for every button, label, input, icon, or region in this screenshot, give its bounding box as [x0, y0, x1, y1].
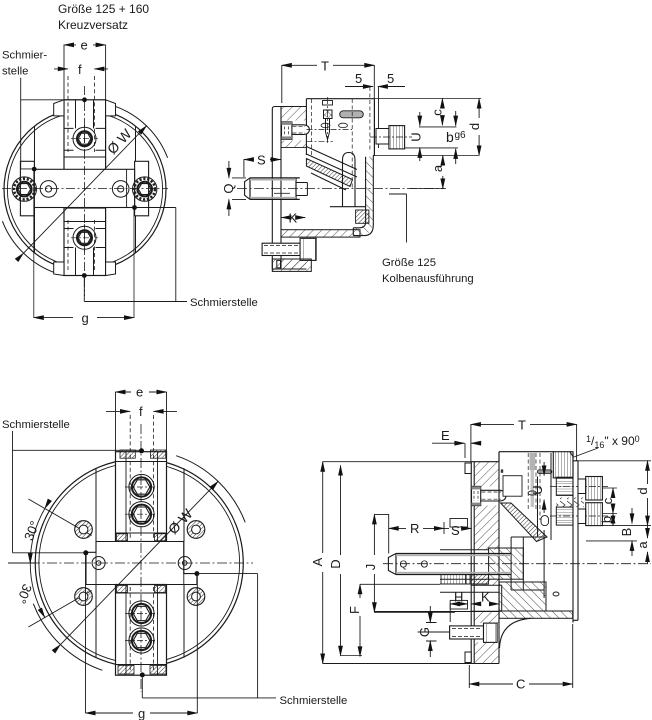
body slot pin — [340, 111, 364, 118]
svg-text:T: T — [321, 59, 329, 74]
dimension e — [64, 44, 106, 46]
dimension J — [374, 514, 455, 612]
bottom jaw corner hatch strips — [117, 586, 128, 593]
dimension T large — [471, 424, 577, 461]
lube dot band right — [132, 205, 137, 210]
svg-text:G: G — [417, 627, 432, 637]
guideway edges bottom large — [96, 585, 184, 658]
svg-text:K: K — [481, 590, 490, 605]
top jaw horizontals large — [116, 462, 167, 534]
dimension F — [360, 584, 440, 656]
lube fitting lower-right — [187, 588, 205, 606]
top jaw inner verticals — [76, 100, 94, 129]
chamfer circle large — [39, 463, 240, 664]
lube dot band left large — [83, 550, 88, 555]
rod spring — [441, 575, 466, 585]
top jaw corner hatch strips — [120, 450, 135, 458]
rear bolt upper inner — [556, 477, 573, 495]
centerline section — [237, 188, 446, 190]
svg-text:g: g — [82, 311, 89, 326]
flange mount screw shaft — [292, 125, 310, 135]
dimension c — [441, 99, 443, 126]
body detail ovals — [321, 123, 330, 127]
svg-text:K: K — [289, 211, 298, 226]
vertical centerline — [84, 86, 86, 296]
swing arc W bottom-left — [2, 221, 56, 273]
g extension lines — [34, 171, 134, 318]
lube dot top large — [139, 448, 144, 453]
svg-text:F: F — [347, 606, 362, 614]
bottom jaw screw hex socket — [77, 230, 92, 245]
body cup outer wall — [353, 156, 373, 236]
svg-text:Kreuzversatz: Kreuzversatz — [58, 18, 128, 32]
svg-text:U: U — [530, 485, 545, 494]
svg-text:Kolbenausführung: Kolbenausführung — [382, 273, 474, 285]
leader schmierstelle left — [21, 78, 85, 169]
bottom jaw screws crosshair — [125, 614, 158, 641]
dimension S large — [444, 527, 471, 529]
rear bolt lower inner — [556, 507, 573, 525]
swing arc W bottom-left large — [33, 604, 102, 671]
flange ledge line — [281, 146, 306, 148]
lube dot band left — [32, 167, 37, 172]
rod sleeve lines — [440, 550, 499, 593]
wedge large — [501, 503, 547, 542]
piston rod — [250, 178, 300, 200]
e extension lines — [64, 45, 106, 100]
svg-text:d: d — [635, 487, 650, 494]
bottom jaw inner verticals — [76, 248, 94, 276]
body top screw head — [324, 110, 333, 119]
svg-text:Größe 125: Größe 125 — [382, 257, 436, 269]
svg-text:Schmierstelle: Schmierstelle — [280, 695, 348, 707]
outer circle chuck body — [4, 109, 166, 271]
pivot circle right large — [178, 557, 191, 570]
cross slide band large stepped — [86, 542, 197, 585]
top jaw screw hex socket — [77, 131, 92, 146]
svg-text:E: E — [441, 428, 450, 443]
dimension g — [34, 317, 134, 319]
svg-text:Schmierstelle: Schmierstelle — [2, 419, 70, 431]
bottom jaw screw crosshair — [71, 224, 98, 252]
svg-text:5: 5 — [355, 71, 362, 86]
svg-text:Q: Q — [400, 560, 408, 571]
top jaw step lines — [64, 128, 106, 157]
piston block lines — [511, 530, 544, 598]
lube dot bottom large — [140, 672, 145, 677]
right reference lines — [373, 99, 481, 189]
lower screw shaft — [262, 243, 300, 255]
svg-text:1/16" x 900: 1/16" x 900 — [586, 434, 640, 450]
lube fitting lower-left — [75, 588, 93, 606]
dimension d — [478, 99, 480, 156]
dimension Q — [229, 161, 246, 216]
dimension H — [450, 604, 467, 622]
top jaw screws crosshair — [125, 487, 158, 514]
dimension K large — [471, 603, 499, 605]
cup inner block — [356, 210, 369, 223]
leader schmierstelle left large — [13, 431, 142, 553]
dimension C — [469, 624, 572, 688]
outer circle chuck body large — [35, 459, 243, 667]
dimension G — [418, 606, 449, 657]
bush pilot — [376, 129, 389, 145]
arc dim 30deg upper — [30, 509, 45, 564]
svg-text:a: a — [430, 164, 445, 172]
leader schmierstelle bottom large — [142, 574, 276, 698]
dimension g large — [86, 555, 198, 713]
foot fillet — [500, 618, 532, 648]
radial line 30deg up — [28, 499, 91, 536]
sleeve hatch small — [470, 575, 489, 585]
body top screw centerline — [327, 97, 329, 145]
svg-text:5: 5 — [387, 71, 394, 86]
flange plate large outline — [471, 462, 499, 664]
dimension E — [432, 443, 478, 458]
flange hatch mid1 — [281, 141, 306, 148]
flange hatch 3b — [474, 611, 499, 623]
dimension 5 5 — [345, 87, 405, 149]
dimension a — [442, 156, 444, 189]
svg-text:S: S — [257, 153, 266, 168]
body internal dash details — [307, 130, 353, 142]
dashed jaw width lines large — [130, 415, 153, 670]
svg-text:B: B — [619, 528, 634, 537]
body inner pin gray — [530, 453, 536, 470]
rod hub band top — [450, 519, 468, 528]
svg-text:A: A — [310, 557, 325, 566]
rear bolt lower shank — [578, 509, 586, 524]
svg-text:Schmier-: Schmier- — [2, 50, 47, 62]
body below rod hatch — [499, 582, 546, 611]
cross slide band outline — [34, 169, 134, 207]
dashed jaw width lines top — [68, 76, 94, 152]
thread chevrons — [556, 498, 584, 508]
side lube fitting right — [133, 177, 157, 201]
svg-text:b: b — [599, 516, 614, 523]
svg-text:Schmierstelle: Schmierstelle — [190, 297, 258, 309]
dimension e large — [116, 392, 167, 452]
arc dim 30deg lower — [30, 563, 45, 618]
svg-text:stelle: stelle — [2, 66, 28, 78]
rod hub band bottom — [450, 600, 467, 609]
horizontal centerline — [2, 188, 168, 190]
lube fitting upper-left — [75, 521, 93, 539]
right reference lines large — [578, 461, 651, 541]
svg-text:e: e — [136, 385, 143, 400]
flange mount screw head — [282, 122, 292, 139]
svg-text:H: H — [454, 590, 463, 605]
chamfer circle — [7, 112, 162, 267]
dimension d large — [647, 461, 649, 526]
leader 1/16 — [573, 448, 599, 458]
side lube fitting left — [12, 177, 36, 201]
side boss left — [20, 161, 34, 216]
body inner wall vertical — [538, 453, 552, 540]
svg-text:D: D — [328, 559, 343, 568]
svg-text:T: T — [518, 418, 526, 433]
lower screw shaft dashes — [452, 629, 482, 637]
rear slab — [573, 452, 578, 623]
rod gray edges large — [396, 555, 511, 572]
svg-text:S: S — [451, 523, 460, 538]
band inner verticals large — [96, 542, 184, 585]
dimension c large — [612, 488, 614, 514]
pivot circle left large — [92, 557, 105, 570]
dimension R — [389, 514, 444, 553]
bottom jaw guide ear right — [106, 262, 116, 276]
top jaw screw upper — [129, 474, 154, 499]
body outline — [306, 99, 374, 156]
bottom jaw outline large — [116, 585, 167, 676]
lube dot band right large — [194, 571, 199, 576]
flange hatch upper — [281, 107, 306, 121]
dimension S — [244, 160, 281, 178]
dimension A — [323, 462, 472, 664]
top jaw screw circle — [73, 127, 96, 150]
dimension B — [631, 508, 633, 556]
upper body pocket — [503, 476, 522, 497]
flange hatch 3 — [474, 579, 499, 585]
D F bottom reference — [341, 655, 363, 657]
bottom jaw screw upper — [129, 601, 154, 626]
top jaw inner verticals large — [126, 452, 158, 542]
svg-text:a: a — [635, 541, 650, 549]
rear bolt upper shank — [578, 479, 586, 494]
svg-text:f: f — [139, 404, 143, 419]
pivot circle left — [40, 181, 57, 198]
port lobe — [541, 516, 549, 526]
bottom jaw screw lower — [129, 628, 154, 653]
threaded bush — [389, 126, 405, 149]
dimension f large — [106, 410, 177, 412]
lower screw tab — [277, 260, 281, 267]
dimension f — [54, 68, 108, 70]
body top screw fitting — [323, 101, 333, 106]
centerline section large — [383, 563, 651, 565]
top jaw outline large — [116, 452, 167, 542]
upper screw shaft — [481, 490, 506, 501]
leader schmierstelle bottom — [84, 208, 187, 302]
horizontal reference 0deg — [8, 562, 36, 564]
body dashed bores vertical — [528, 453, 540, 520]
pivot circle right — [112, 181, 129, 198]
wedge — [306, 147, 357, 178]
svg-text:g: g — [138, 706, 145, 720]
rod end cap — [245, 178, 250, 200]
dashed jaw width lines bottom — [68, 220, 94, 270]
guideway edge top-right — [135, 126, 137, 169]
lube dot bottom — [82, 273, 87, 278]
lube fitting upper-right — [187, 521, 205, 539]
body inner pin washer — [528, 491, 536, 495]
top jaw guide ear right — [106, 100, 116, 116]
swing arc W top-right large — [176, 456, 245, 523]
body top edge — [499, 452, 553, 462]
rod gray edges — [250, 180, 296, 198]
guideway edge top-left — [34, 126, 36, 169]
vertical centerline large — [140, 424, 142, 692]
flange hatch 2 — [474, 506, 499, 550]
horizontal centerline large — [30, 562, 253, 564]
rear bolt centerlines — [550, 487, 608, 517]
chamfer 1/16 — [570, 452, 573, 457]
dimension b large — [612, 514, 614, 526]
bottom jaw guide ear left — [54, 262, 64, 276]
wedge lower line — [311, 173, 346, 190]
top jaw guide ear left — [54, 100, 64, 116]
adapter block on rod — [489, 548, 524, 579]
flange foot — [272, 259, 311, 271]
cylinder interior bottom — [374, 611, 499, 613]
body lower arm — [281, 230, 360, 237]
bottom jaw horizontals large — [116, 593, 167, 665]
top jaw screw crosshair — [71, 125, 98, 153]
bottom jaw inner verticals large — [126, 585, 158, 676]
piston rod large — [396, 554, 511, 575]
flange tab bottom — [465, 652, 471, 663]
dimension T — [282, 65, 375, 103]
upper screw head — [472, 486, 481, 505]
lower screw shaft large — [450, 626, 484, 639]
radial line 30deg down — [28, 591, 91, 628]
rod tip in body — [296, 183, 307, 196]
bush centerline — [370, 136, 412, 138]
bottom jaw step lines — [64, 222, 106, 248]
bayonet groove outline — [471, 585, 502, 611]
top jaw outline — [64, 100, 106, 171]
flange plate outline — [272, 99, 306, 269]
svg-text:Größe 125 + 160: Größe 125 + 160 — [58, 2, 149, 16]
small oval detail — [553, 592, 559, 596]
rear bolt lower cap — [586, 503, 603, 526]
swing arc W top-right — [114, 106, 168, 158]
svg-text:R: R — [410, 521, 419, 536]
body top screw shaft — [326, 119, 330, 140]
svg-text:f: f — [78, 62, 82, 77]
svg-text:O: O — [421, 560, 429, 571]
body dashed bores — [312, 87, 370, 188]
rear bolt upper cap — [586, 477, 603, 501]
flange hatch lower — [281, 260, 306, 269]
svg-text:c: c — [430, 109, 445, 116]
side boss right — [135, 161, 149, 216]
lube dot top — [82, 97, 87, 102]
guideway edge bottom-left — [34, 208, 36, 254]
dimension U large — [543, 462, 545, 513]
svg-text:g6: g6 — [455, 130, 467, 141]
svg-text:e: e — [81, 38, 88, 53]
leader Groesse 125 — [389, 194, 407, 243]
dimension a large — [647, 526, 649, 564]
body port square — [501, 469, 503, 472]
lower screw nut — [300, 238, 316, 260]
band inner vertical right — [126, 169, 128, 207]
svg-text:J: J — [363, 564, 378, 571]
dimension D — [340, 466, 342, 656]
svg-text:Q: Q — [221, 183, 236, 193]
diameter W dimension line — [24, 126, 147, 253]
svg-text:U: U — [409, 132, 424, 141]
flange hatch 4 — [474, 642, 499, 663]
rod inner line — [274, 192, 290, 194]
bottom jaw screw circle — [73, 226, 96, 249]
svg-text:d: d — [467, 123, 482, 130]
flange hatch 1 — [474, 462, 499, 487]
dimension K — [281, 217, 305, 219]
bottom jaw outline — [64, 208, 106, 276]
dimension b g6 — [455, 111, 457, 164]
screw shaft thread dashes — [293, 126, 306, 133]
lower screw nut large — [484, 623, 498, 642]
top jaw screw lower — [129, 502, 154, 527]
dimension U — [419, 112, 421, 161]
svg-text:b: b — [446, 129, 454, 145]
piston slot — [330, 153, 366, 207]
svg-text:C: C — [516, 677, 525, 692]
body gray slot — [537, 470, 552, 474]
rod end cap large — [388, 554, 396, 575]
bottom rim strip — [499, 611, 573, 618]
svg-text:c: c — [600, 497, 615, 504]
body top-right cover serrated — [553, 452, 573, 478]
guideway edges top large — [96, 468, 184, 541]
diameter W dimension line large — [60, 481, 218, 644]
flange tab top — [465, 463, 471, 474]
guideway edge bottom-right — [135, 208, 137, 253]
cup wall hatch — [353, 157, 373, 235]
